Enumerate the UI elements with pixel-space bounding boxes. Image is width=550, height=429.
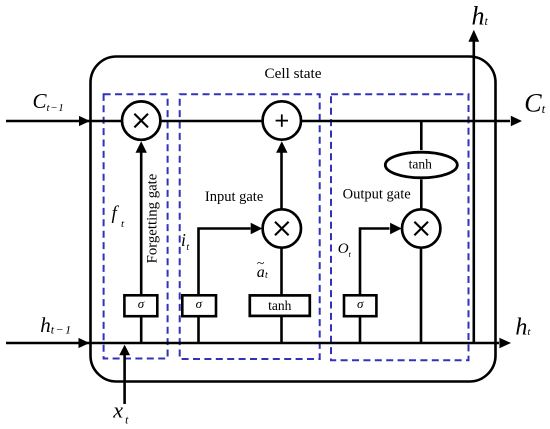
wire arrowhead C_t output (511, 116, 522, 126)
wire cell-state line C (6, 120, 510, 123)
svg-text:Cell state: Cell state (265, 65, 322, 82)
sigma box 1 (124, 295, 157, 316)
cell body (outer rounded box) (91, 57, 496, 382)
wire i path to input multiplier (199, 229, 251, 296)
svg-text:σ: σ (357, 296, 364, 311)
wire C line down to tanh ellipse (420, 121, 423, 150)
svg-text:Input gate: Input gate (205, 189, 263, 205)
wire f stem up to multiplier (140, 151, 143, 295)
svg-text:Forgetting gate: Forgetting gate (144, 173, 160, 263)
svg-text:tanh: tanh (268, 298, 291, 313)
wire x_t input arrow (123, 355, 126, 404)
wire arrowhead h into box (79, 338, 90, 348)
svg-text:σ: σ (196, 296, 203, 311)
output gate dashed box (331, 94, 469, 360)
multiplier forget circle (122, 101, 160, 139)
svg-text:~: ~ (257, 255, 265, 270)
sigma box 2 (182, 295, 216, 316)
wire arrowhead h_t output (499, 338, 511, 348)
wire sigma1 to h line (140, 316, 143, 344)
wire input multiplier to tanh box (280, 249, 283, 296)
wire hidden line h (6, 342, 499, 345)
svg-text:σ: σ (138, 296, 145, 311)
wire tanh box to h line (280, 316, 283, 344)
wire tanh ellipse to output multiplier (420, 180, 423, 209)
svg-text:Output gate: Output gate (343, 187, 411, 203)
wire sigma3 to h line (359, 316, 362, 344)
wire h_t vertical up (472, 41, 475, 343)
svg-text:tanh: tanh (409, 157, 432, 172)
sigma box 3 (344, 295, 376, 316)
forgetting gate dashed box (104, 94, 168, 358)
tanh box (250, 295, 310, 316)
input gate dashed box (180, 94, 320, 359)
tanh ellipse (385, 152, 457, 178)
multiplier input circle (263, 209, 301, 247)
wire arrowhead C into box (79, 116, 90, 126)
wire input multiplier up to adder (280, 151, 283, 209)
adder circle (263, 101, 301, 139)
wire output multiplier down to h line (420, 249, 423, 344)
multiplier output circle (402, 209, 440, 247)
wire sigma2 to h line (197, 316, 200, 344)
wire O path to output multiplier (360, 229, 390, 296)
